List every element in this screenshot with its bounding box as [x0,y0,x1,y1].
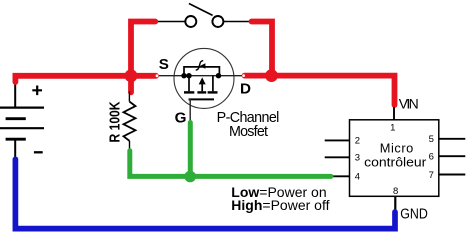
battery plate long top [0,106,44,108]
resistor R1 zigzag [124,102,136,141]
svg-text:G: G [175,110,187,127]
svg-text:1: 1 [390,122,395,133]
mosfet gate lead [189,99,191,122]
switch lever [189,4,213,16]
mosfet body plate [197,91,206,93]
switch right contact [212,16,223,27]
svg-text:4: 4 [355,171,360,182]
svg-text:7: 7 [429,170,434,181]
pin 3 stub [325,156,350,158]
svg-text:S: S [159,56,169,73]
switch S1 [156,4,251,22]
wire blue battery minus to GND [15,159,395,228]
svg-text:5: 5 [429,134,434,145]
svg-text:High=Power off: High=Power off [231,197,329,213]
svg-text:VIN: VIN [399,96,419,112]
mosfet substrate arrow [199,77,206,84]
junction node right [265,69,278,82]
node notch at S cap [156,74,159,77]
mosfet body diode bar [196,61,204,71]
wire red resistor stub [128,78,134,92]
wire green resistor to pin4 [130,151,331,177]
resistor R1 bottom lead [129,141,131,152]
micro controller U1 box [350,120,439,197]
mosfet bridge (body connection) [184,67,219,76]
battery plate short bottom [6,138,26,141]
svg-text:8: 8 [393,186,398,197]
svg-text:3: 3 [355,152,360,163]
svg-text:Micro: Micro [380,141,414,156]
svg-text:D: D [240,81,251,98]
mosfet drain plate [208,91,218,93]
mosfet source leg [188,76,190,92]
switch left contact [185,16,196,27]
wire red junction up to switch [131,22,155,79]
pin 4 stub [329,175,350,177]
pin 8 stub [394,196,396,212]
battery BT1 [0,82,44,160]
pin 7 stub [439,174,466,176]
wire red D to VIN [245,76,395,105]
mosfet drain leg [212,76,214,92]
wire green gate down [188,123,193,177]
battery top lead [14,82,16,107]
mosfet substrate stem [201,84,203,91]
mosfet source plate [184,91,194,93]
mosfet channel line S to D [157,75,244,77]
mosfet node dot bridge-right [216,73,221,78]
node notch at D cap [242,74,245,77]
battery minus label [34,151,43,153]
battery plate long bottom [0,127,44,129]
resistor R1 top lead [128,92,130,102]
wire red switch down to D junction [252,22,273,76]
pin 2 stub [325,139,350,141]
pin 6 stub [439,155,466,157]
svg-text:GND: GND [400,207,428,223]
junction node green [184,171,196,183]
pin 1 stub [393,107,395,120]
wire red battery to mosfet S [15,76,156,82]
svg-text:R 100K: R 100K [107,101,124,142]
pin 5 stub [439,138,466,140]
switch right lead [224,21,252,23]
battery plate short [6,117,26,120]
svg-text:6: 6 [429,152,434,163]
mosfet Q1 circle [174,48,234,108]
svg-text:Mosfet: Mosfet [229,124,268,140]
battery bottom lead [14,139,16,159]
mosfet gate bar [189,98,215,100]
svg-text:contrôleur: contrôleur [364,155,427,170]
battery plus label [32,86,42,96]
mosfet node dot source-leg [186,73,191,78]
junction node left [125,69,138,82]
mosfet body diode triangle [200,63,206,68]
mosfet node dot bridge-left [181,73,186,78]
svg-text:2: 2 [355,136,360,147]
switch left lead [156,21,185,23]
